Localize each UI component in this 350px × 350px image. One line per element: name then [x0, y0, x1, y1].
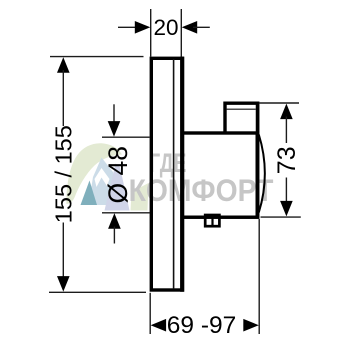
dim155 bottom ext line — [49, 291, 146, 293]
dim20 arrow left — [135, 21, 151, 34]
dim20 line left — [118, 26, 139, 28]
bottom tab divider — [211, 215, 213, 227]
svg-text:Ø 48: Ø 48 — [103, 146, 133, 203]
dim48 arrow down — [108, 121, 121, 137]
svg-text:73: 73 — [273, 146, 301, 174]
dim73 text — [273, 146, 301, 174]
dim20 ext line left — [150, 9, 152, 57]
dim155 text — [50, 125, 76, 223]
watermark logo pale green right — [131, 183, 149, 211]
dim155 arrow down — [57, 276, 70, 292]
dim20 ext line right — [180, 9, 182, 57]
dim48 ext bottom — [102, 212, 150, 214]
dim69 arrow left — [151, 319, 167, 332]
faceplate inner edge line — [173, 59, 175, 289]
dim73 top ext — [259, 102, 299, 104]
faceplate outer — [151, 58, 182, 290]
dim73 line lower — [285, 178, 287, 204]
svg-text:69 -97: 69 -97 — [167, 312, 236, 339]
faceplate front joint edge — [180, 57, 184, 292]
dim48 arrow up — [108, 213, 121, 229]
handle dome arc — [259, 135, 265, 213]
dim155 line lower — [62, 223, 64, 278]
watermark text line1 — [149, 148, 186, 178]
svg-text:20: 20 — [153, 15, 178, 40]
dim73 arrow down — [280, 201, 293, 217]
svg-text:155 / 155: 155 / 155 — [50, 125, 76, 223]
dim155 line upper — [62, 70, 64, 126]
dim155 top ext line — [50, 56, 144, 58]
dim48 ext top — [102, 136, 150, 138]
valve body — [182, 133, 257, 217]
dim48 lower line — [113, 227, 115, 244]
watermark logo teal triangle — [81, 181, 98, 206]
dim69 left ext — [149, 293, 151, 334]
knob inner line — [226, 108, 256, 110]
dim73 arrow up — [280, 104, 293, 120]
watermark logo periwinkle band — [105, 164, 130, 211]
dim73 line upper — [285, 117, 287, 144]
bottom tab — [205, 215, 219, 226]
dim69 arrow right — [243, 319, 258, 332]
dim69 right ext — [258, 219, 260, 334]
dim48 text — [103, 146, 133, 203]
dim20 line right — [193, 26, 210, 28]
watermark logo white chevron — [95, 168, 110, 187]
body bottom edge over tab — [181, 216, 259, 219]
dim20 arrow right — [182, 21, 198, 34]
handle front face — [256, 102, 260, 219]
dim73 bottom ext — [261, 216, 301, 218]
watermark logo leaf — [66, 143, 122, 204]
dim48 upper line — [113, 104, 115, 123]
watermark logo green top fill — [84, 145, 122, 165]
watermark logo blue arrow — [89, 158, 119, 206]
watermark text line2 — [129, 174, 274, 209]
shutoff knob box — [225, 103, 256, 133]
dim155 arrow up — [57, 57, 70, 72]
